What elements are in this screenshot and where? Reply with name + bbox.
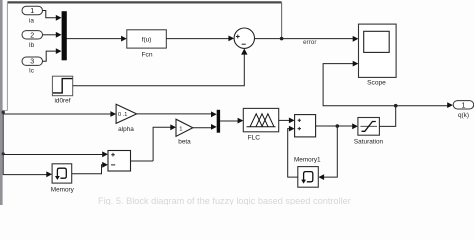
wire: saturation output up to q(k) line	[379, 106, 395, 127]
wire: Memory1 output to sum2 second input	[288, 129, 298, 178]
wire: alpha to mux2	[137, 113, 212, 115]
svg-text:f(u): f(u)	[142, 36, 152, 43]
node: sum2 output junction	[336, 124, 340, 128]
svg-text:1: 1	[30, 8, 34, 15]
svg-text:Fcn: Fcn	[142, 51, 153, 58]
wire: mux2 to FLC	[220, 120, 238, 122]
input port 2 (Ib)	[22, 31, 43, 49]
step source id0ref	[52, 76, 72, 104]
sum S3 (delta, + -)	[108, 151, 131, 172]
svg-text:Fig. 5. Block diagram of the f: Fig. 5. Block diagram of the fuzzy logic…	[98, 196, 351, 205]
wire: beta to mux2	[193, 127, 212, 129]
wire: Memory output to delta minus input	[72, 165, 103, 174]
output port 1 q(k)	[453, 101, 474, 119]
wire: sum to scope (error line)	[255, 38, 354, 40]
svg-text:Memory1: Memory1	[294, 156, 321, 163]
wire: sum2 to saturation	[316, 125, 353, 127]
svg-text:Saturation: Saturation	[354, 139, 384, 146]
wire: rail to Memory	[3, 174, 46, 176]
svg-text:ia: ia	[29, 17, 34, 24]
node: error branch junction	[280, 37, 284, 41]
svg-text:1: 1	[461, 102, 465, 109]
wire: port2 to mux	[43, 34, 57, 36]
scope block	[359, 24, 397, 86]
svg-text:Scope: Scope	[367, 79, 386, 86]
memory block Memory1 (flipped)	[294, 156, 321, 187]
page edge grey bar	[0, 0, 3, 205]
svg-text:error: error	[303, 39, 317, 46]
wire: rail to delta plus input	[3, 154, 102, 156]
svg-text:Memory: Memory	[51, 186, 75, 193]
svg-text:alpha: alpha	[118, 126, 134, 133]
svg-text:1: 1	[179, 126, 182, 132]
wire: Fcn to sum	[166, 38, 228, 40]
mux M1	[62, 11, 67, 60]
memory block Memory	[51, 164, 75, 194]
node: rail/sum junction	[2, 152, 5, 155]
wire: error feedback right drop to error line	[281, 2, 283, 38]
wire: junction to output port	[396, 105, 448, 107]
wire: rail to alpha	[3, 113, 111, 115]
wire: delta output right then up (to beta)	[131, 160, 154, 162]
wire: id0ref to sum minus input	[73, 54, 245, 86]
sum S1	[234, 28, 254, 48]
gain beta	[176, 119, 193, 145]
svg-text:FLC: FLC	[248, 134, 261, 141]
wire: port1 to mux	[43, 11, 57, 18]
wire: error feedback top line	[7, 1, 281, 3]
Fcn block f(u)	[127, 30, 167, 59]
wire: port3 to mux	[43, 51, 57, 61]
sum S2 (++)	[295, 115, 316, 137]
svg-text:q(k): q(k)	[458, 112, 469, 119]
input port 1 (ia)	[22, 6, 43, 24]
FLC block	[243, 108, 278, 141]
mux M2	[217, 110, 220, 133]
wire: rail jog	[3, 110, 7, 112]
svg-text:Ib: Ib	[29, 42, 35, 49]
saturation block	[354, 118, 384, 146]
svg-text:2: 2	[30, 32, 34, 39]
wire: mux to Fcn	[67, 38, 122, 40]
wire: FLC to sum2	[279, 119, 290, 121]
wire: error feedback left rail upper	[6, 2, 8, 110]
svg-text:id0ref: id0ref	[55, 98, 71, 105]
gain alpha	[116, 104, 137, 133]
svg-text:beta: beta	[178, 138, 191, 145]
svg-text:Ic: Ic	[29, 68, 35, 75]
node: rail/alpha junction	[2, 111, 5, 114]
wire: delta to beta	[153, 127, 171, 161]
input port 3 (Ic)	[22, 57, 43, 75]
wire: junction down to Memory1 input	[324, 126, 337, 177]
svg-text:3: 3	[30, 59, 34, 66]
svg-text:0 .1: 0 .1	[118, 112, 127, 118]
node: q(k) junction	[394, 104, 398, 108]
wire: error feedback left rail lower	[2, 111, 4, 176]
wire: q(k) line to scope input 2	[323, 64, 396, 106]
